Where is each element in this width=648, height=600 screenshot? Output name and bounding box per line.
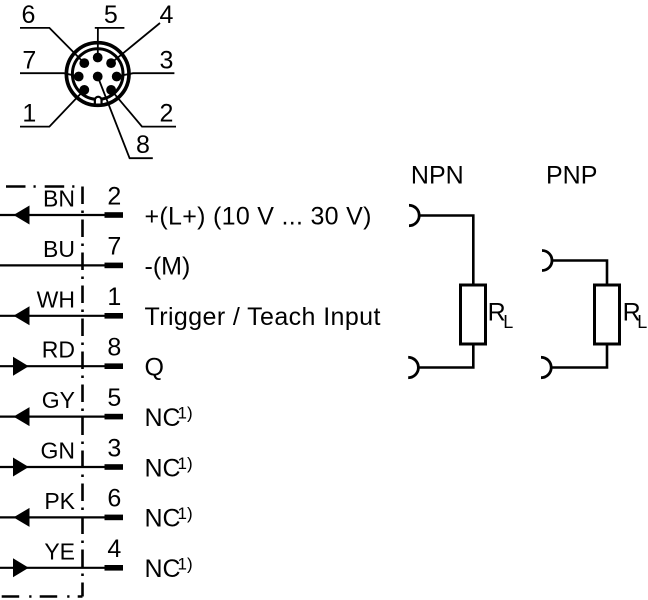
svg-text:4: 4 xyxy=(107,535,121,563)
leader line pin 8 xyxy=(98,77,153,159)
svg-text:RD: RD xyxy=(42,337,75,363)
svg-text:NPN: NPN xyxy=(411,161,464,189)
svg-text:GY: GY xyxy=(42,387,75,413)
leader line pin 6 xyxy=(20,28,84,63)
device boundary dash-dot top xyxy=(6,185,83,188)
connector J1 (M12 8-pin, face view) xyxy=(66,43,129,106)
svg-text:5: 5 xyxy=(104,1,118,29)
leader line pin 1 xyxy=(20,90,84,127)
arrow right YE xyxy=(13,558,29,577)
svg-text:1: 1 xyxy=(22,100,36,128)
NPN bottom contact arc xyxy=(408,357,418,377)
PNP bottom contact arc xyxy=(541,357,551,377)
svg-text:+(L+) (10 V ... 30 V): +(L+) (10 V ... 30 V) xyxy=(145,202,372,230)
svg-text:5: 5 xyxy=(107,384,121,412)
NPN top contact arc xyxy=(409,205,419,225)
svg-text:8: 8 xyxy=(136,131,150,159)
svg-text:PK: PK xyxy=(44,488,75,514)
svg-text:3: 3 xyxy=(159,46,173,74)
connector inner circle xyxy=(72,49,123,100)
svg-text:2: 2 xyxy=(107,182,121,210)
svg-text:-(M): -(M) xyxy=(145,253,191,281)
PNP top contact arc xyxy=(542,251,552,271)
svg-text:Trigger / Teach Input: Trigger / Teach Input xyxy=(145,303,381,331)
wire BU row xyxy=(0,264,123,266)
svg-text:NC: NC xyxy=(145,454,181,482)
wire YE row xyxy=(0,567,123,569)
svg-text:1): 1) xyxy=(178,504,193,523)
svg-text:NC: NC xyxy=(145,404,181,432)
svg-text:Q: Q xyxy=(145,354,164,382)
svg-text:2: 2 xyxy=(160,100,174,128)
device boundary dash-dot bottom xyxy=(2,595,83,598)
svg-text:8: 8 xyxy=(107,334,121,362)
pin 2 dot xyxy=(106,85,116,95)
terminal pin 7 xyxy=(105,263,124,269)
svg-text:PNP: PNP xyxy=(546,161,597,189)
leader line pin 3 xyxy=(117,73,175,76)
arrow left PK xyxy=(14,508,30,527)
leader line pin 4 xyxy=(111,23,160,63)
wire RD row xyxy=(0,365,123,367)
arrow left GY xyxy=(14,407,30,426)
svg-text:YE: YE xyxy=(44,538,75,564)
svg-text:NC: NC xyxy=(145,555,181,583)
leader line pin 5 xyxy=(95,28,125,58)
leader line pin 2 xyxy=(111,90,176,127)
svg-text:NC: NC xyxy=(145,505,181,533)
pin 6 dot xyxy=(79,58,89,68)
svg-text:7: 7 xyxy=(22,46,36,74)
connector outer circle xyxy=(66,43,129,106)
NPN wire bottom xyxy=(418,344,473,368)
arrow left WH xyxy=(14,306,30,325)
terminal pin 4 xyxy=(105,565,124,571)
svg-text:GN: GN xyxy=(41,438,76,464)
svg-text:WH: WH xyxy=(37,286,75,312)
pin 5 dot xyxy=(93,53,103,63)
arrow right GN xyxy=(13,458,29,477)
svg-text:1): 1) xyxy=(178,555,193,574)
wire GY row xyxy=(0,416,123,418)
resistor RL (NPN) xyxy=(461,285,486,344)
svg-text:1: 1 xyxy=(107,283,121,311)
svg-text:1): 1) xyxy=(178,403,193,422)
PNP wire top xyxy=(552,261,607,286)
pin 1 dot xyxy=(79,85,89,95)
leader line pin 7 xyxy=(20,73,79,76)
terminal pin 1 xyxy=(105,313,124,319)
resistor RL (PNP) xyxy=(595,285,620,344)
svg-text:6: 6 xyxy=(107,485,121,513)
terminal pin 8 xyxy=(105,363,124,369)
svg-text:3: 3 xyxy=(107,434,121,462)
terminal pin 6 xyxy=(105,515,124,521)
svg-text:7: 7 xyxy=(107,233,121,261)
device boundary dash-dot vertical xyxy=(81,187,84,597)
NPN wire top xyxy=(419,216,473,286)
terminal pin 3 xyxy=(105,464,124,470)
svg-text:4: 4 xyxy=(160,1,174,29)
terminal pin 2 xyxy=(105,212,124,218)
svg-text:BN: BN xyxy=(43,186,75,212)
wire GN row xyxy=(0,466,123,468)
keyway notch xyxy=(95,97,102,104)
pin 8 dot (center) xyxy=(93,72,103,82)
svg-text:L: L xyxy=(503,312,513,332)
arrow left BN xyxy=(14,206,30,225)
svg-text:L: L xyxy=(637,312,647,332)
wire PK row xyxy=(0,516,123,518)
svg-text:BU: BU xyxy=(43,236,75,262)
pin 7 dot xyxy=(74,72,84,82)
terminal pin 5 xyxy=(105,414,124,420)
pin 3 dot xyxy=(112,72,122,82)
wire WH row xyxy=(0,315,123,317)
svg-text:6: 6 xyxy=(22,1,36,29)
pin 4 dot xyxy=(106,58,116,68)
wire BN row xyxy=(0,214,123,216)
arrow right RD xyxy=(13,357,29,376)
svg-text:1): 1) xyxy=(178,454,193,473)
PNP wire bottom xyxy=(551,344,607,368)
